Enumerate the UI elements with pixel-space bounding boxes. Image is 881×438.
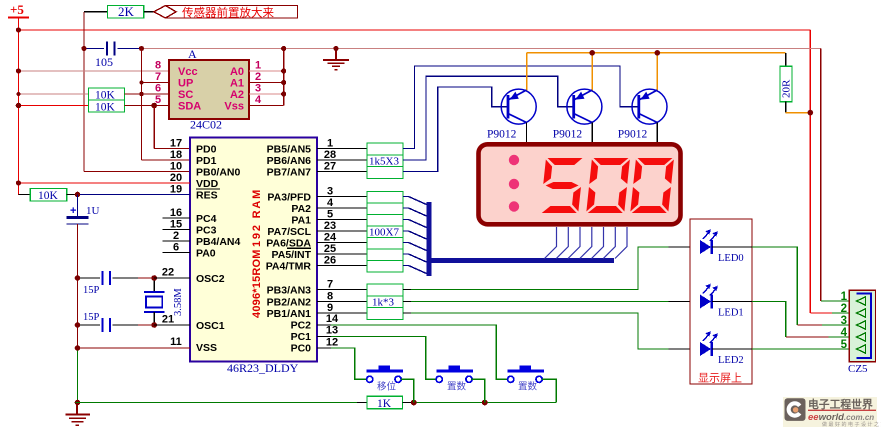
node 15P bottom left <box>75 322 81 328</box>
svg-text:7: 7 <box>327 279 333 291</box>
button S1 移位 <box>367 366 414 403</box>
U1 VDD underline <box>196 188 220 190</box>
svg-text:2K: 2K <box>118 4 135 19</box>
svg-text:显示屏上: 显示屏上 <box>698 372 742 385</box>
wire 24C02 Vcc row <box>19 70 170 72</box>
svg-text:8: 8 <box>327 291 333 303</box>
wire LED0 cathode to CZ5 pin3 <box>752 247 857 325</box>
resistor R 10K (SDA pullup) <box>89 100 125 114</box>
svg-text:4: 4 <box>255 94 262 106</box>
wire +5 rail <box>19 30 811 313</box>
svg-text:23: 23 <box>324 220 336 232</box>
LED2 <box>700 331 752 366</box>
svg-text:PA3/PFD: PA3/PFD <box>267 192 311 204</box>
wire LED1 cathode to CZ5 pin4 <box>752 302 857 338</box>
svg-text:13: 13 <box>326 325 338 337</box>
svg-text:17: 17 <box>170 138 182 150</box>
svg-text:26: 26 <box>324 255 336 267</box>
svg-text:1: 1 <box>255 60 261 72</box>
wire GND rail right drop <box>820 49 822 302</box>
svg-text:3.58M: 3.58M <box>173 288 184 316</box>
svg-text:PD1: PD1 <box>196 155 217 167</box>
LED frame box <box>690 219 752 384</box>
wire PC1 net to button2 <box>317 337 437 380</box>
svg-text:P9012: P9012 <box>487 129 517 141</box>
U1 PA6/SDA underline <box>287 247 311 249</box>
wire 20R bottom to +5 <box>786 102 811 113</box>
svg-text:PB1/AN1: PB1/AN1 <box>267 308 312 320</box>
svg-text:2: 2 <box>173 230 179 242</box>
svg-text:15P: 15P <box>83 285 100 296</box>
resistor R 20R <box>780 66 793 102</box>
svg-text:PC3: PC3 <box>196 225 217 237</box>
svg-text:做最好的电子设计之家: 做最好的电子设计之家 <box>822 421 881 428</box>
wire bus entry c <box>403 220 427 228</box>
wire A1 row <box>249 82 284 84</box>
wire PB1 stub <box>317 312 367 314</box>
transistor Q3 P9012 <box>618 89 667 142</box>
wire bus entry a <box>403 197 427 205</box>
U1 left pin names <box>196 144 241 355</box>
wire PB3 stub <box>317 289 367 291</box>
svg-text:5: 5 <box>155 94 161 106</box>
svg-text:10: 10 <box>170 161 182 173</box>
svg-text:4096*15ROM: 4096*15ROM <box>251 249 263 318</box>
node cap105 left junction <box>81 46 86 51</box>
svg-text:25: 25 <box>324 243 336 255</box>
wire PC2 net to button3 <box>317 325 508 379</box>
power +5 <box>8 2 29 195</box>
U1 left pin numbers <box>162 138 182 349</box>
crystal Y1 3.58M <box>144 278 184 325</box>
wire vertical from 2K down to PB0 <box>84 12 190 172</box>
wire bus entry e <box>403 243 427 251</box>
svg-text:PB7/AN7: PB7/AN7 <box>267 167 312 179</box>
svg-text:Vss: Vss <box>224 101 244 113</box>
svg-text:A2: A2 <box>230 89 244 101</box>
wire base net T1 (inner) <box>403 87 508 172</box>
wire orange drop T3 <box>656 53 658 91</box>
svg-text:PA2: PA2 <box>291 203 311 215</box>
svg-text:VSS: VSS <box>196 342 217 354</box>
wire SDA row left (red) <box>19 105 89 107</box>
wire orange drop T1 <box>526 53 528 91</box>
resistor network RN3 1k*3 <box>367 284 403 320</box>
IC U2 24C02 <box>155 47 262 132</box>
node OSC2 junction <box>151 275 157 281</box>
wire LED2 anode net <box>403 313 700 349</box>
wire OSC1 <box>154 324 190 326</box>
svg-text:46R23_DLDY: 46R23_DLDY <box>227 361 299 375</box>
wire RES row <box>67 194 190 196</box>
node VSS junction <box>75 345 81 351</box>
node ground bottom junction <box>75 400 81 406</box>
svg-text:1k5X3: 1k5X3 <box>369 156 399 168</box>
node tie A2 <box>281 91 286 96</box>
node 20R/+5 junction <box>808 110 814 116</box>
wire PB7 stub <box>317 171 367 173</box>
U1 right pin numbers <box>324 138 339 349</box>
svg-text:15: 15 <box>170 219 182 231</box>
svg-text:A0: A0 <box>230 66 244 78</box>
node SC row left <box>17 92 21 96</box>
svg-text:19: 19 <box>170 184 182 196</box>
wire PA1 stub <box>317 219 367 221</box>
svg-text:PB3/AN3: PB3/AN3 <box>267 285 312 297</box>
wire bus entry b <box>403 208 427 216</box>
wire PA4 stub <box>317 265 367 267</box>
svg-text:5: 5 <box>327 209 333 221</box>
node +5/rail junction <box>16 27 21 32</box>
wire A2 row <box>249 93 284 95</box>
svg-text:1K: 1K <box>377 398 392 410</box>
svg-text:PC1: PC1 <box>291 331 312 343</box>
node 15P top left <box>75 275 81 281</box>
svg-text:18: 18 <box>170 149 182 161</box>
wire 2K left <box>84 11 108 13</box>
svg-text:28: 28 <box>324 149 336 161</box>
svg-text:4: 4 <box>327 197 334 209</box>
ground (bottom left) <box>66 403 91 426</box>
node OSC1 junction <box>151 322 157 328</box>
wire VDD <box>19 182 191 184</box>
bus segment vertical <box>427 202 432 276</box>
svg-text:LED0: LED0 <box>718 253 744 264</box>
LED0 <box>700 229 752 264</box>
wire 20R top <box>785 53 787 66</box>
svg-text:10K: 10K <box>95 102 116 114</box>
svg-text:4: 4 <box>841 327 848 339</box>
svg-text:PA1: PA1 <box>291 215 311 227</box>
wire PA2 stub <box>317 207 367 209</box>
svg-text:105: 105 <box>95 55 113 69</box>
resistor network RN1 1k5X3 <box>367 143 403 179</box>
svg-text:LED2: LED2 <box>718 355 744 366</box>
svg-text:22: 22 <box>162 267 174 279</box>
wire 1K right stub <box>403 402 414 404</box>
node tie A1 <box>281 80 286 85</box>
transistor Q2 P9012 <box>553 89 602 142</box>
resistor R 2K <box>108 4 144 19</box>
svg-text:+5: +5 <box>10 2 24 17</box>
node VDD tee <box>16 180 21 185</box>
svg-text:3: 3 <box>841 315 847 327</box>
wire 1K left stub <box>357 402 367 404</box>
svg-text:OSC1: OSC1 <box>196 320 225 332</box>
wire +5 elbow to 10K RES <box>19 194 31 196</box>
display DS1 body <box>479 144 681 224</box>
resistor network RN2 100X7 <box>367 192 403 273</box>
svg-text:24: 24 <box>324 232 337 244</box>
svg-text:置数: 置数 <box>447 381 467 393</box>
node orange T2 <box>589 50 595 56</box>
svg-text:SDA: SDA <box>178 101 201 113</box>
node cap105 right junction <box>139 46 144 51</box>
node SDA junction to PD0 <box>151 103 157 109</box>
wire PB6 stub <box>317 159 367 161</box>
svg-text:12: 12 <box>326 337 338 349</box>
svg-text:PB0/AN0: PB0/AN0 <box>196 167 241 179</box>
wire base net T2 (middle) <box>403 76 573 160</box>
display colon dot 3 <box>509 201 519 211</box>
svg-text:24C02: 24C02 <box>190 118 222 132</box>
svg-text:传感器前置放大来: 传感器前置放大来 <box>182 6 274 20</box>
wire orange drop T2 <box>591 53 593 91</box>
display digit 0 (right) <box>630 158 674 213</box>
wire orange emitter rail <box>527 52 786 54</box>
node rail junction b1 <box>411 400 417 406</box>
ground (top middle) <box>323 49 349 70</box>
wire base net T3 (outer) <box>403 66 639 149</box>
svg-text:PA4/TMR: PA4/TMR <box>266 261 312 273</box>
svg-text:3: 3 <box>255 83 261 95</box>
svg-text:20R: 20R <box>781 79 793 98</box>
wire LED1 anode net <box>403 301 700 303</box>
svg-text:PB5/AN5: PB5/AN5 <box>267 144 312 156</box>
svg-text:UP: UP <box>178 78 193 90</box>
wire PA5 stub <box>317 253 367 255</box>
watermark eeworld logo <box>783 397 881 428</box>
node UP row pin7 tee <box>140 81 144 85</box>
svg-text:VDD: VDD <box>196 178 219 190</box>
svg-text:100X7: 100X7 <box>369 227 399 239</box>
svg-text:PA0: PA0 <box>196 248 216 260</box>
svg-text:A: A <box>188 47 197 61</box>
svg-text:7: 7 <box>155 71 161 83</box>
wire SDA to PD0 <box>154 106 190 149</box>
wire bus entry f <box>403 254 427 262</box>
wire PB5 stub <box>317 148 367 150</box>
capacitor C 1U electrolytic <box>67 195 100 225</box>
wire bus entry g <box>403 266 427 274</box>
button S2 置数 <box>436 366 485 403</box>
svg-text:CZ5: CZ5 <box>848 363 868 375</box>
wire SC row right <box>125 93 170 95</box>
wire 24C02 right tie vertical <box>283 49 285 106</box>
svg-text:Vcc: Vcc <box>178 66 198 78</box>
svg-text:PC0: PC0 <box>291 343 312 355</box>
node tie top <box>281 46 286 51</box>
capacitor C 15P (top) <box>78 271 155 296</box>
svg-text:SC: SC <box>178 89 193 101</box>
wire VSS <box>78 347 191 349</box>
wire LED2 cathode to CZ5 pin5 <box>752 348 857 350</box>
U1 unconnected left stubs <box>163 218 191 253</box>
svg-text:1: 1 <box>841 291 848 303</box>
svg-text:6: 6 <box>173 242 179 254</box>
wire PB2 stub <box>317 301 367 303</box>
svg-text:P9012: P9012 <box>618 129 648 141</box>
display colon dot 1 <box>509 155 519 165</box>
wire +5 to CZ5 pin2 <box>810 312 856 314</box>
port 传感器前置放大来 <box>154 6 298 20</box>
svg-text:P9012: P9012 <box>553 129 583 141</box>
wire SDA row right <box>125 105 170 107</box>
svg-text:PD0: PD0 <box>196 144 217 156</box>
wire PA7 stub <box>317 230 367 232</box>
resistor R 1K <box>367 396 403 410</box>
wire GND to CZ5 pin1 <box>821 300 857 302</box>
display segment column wires <box>545 227 628 259</box>
connector CZ5 <box>841 290 876 375</box>
svg-text:LED1: LED1 <box>718 308 744 319</box>
node Vcc row left <box>16 68 21 73</box>
svg-text:6: 6 <box>155 83 161 95</box>
U1 right pin names <box>266 144 312 355</box>
display digit 5 <box>540 158 584 213</box>
wire Vss row <box>249 105 284 107</box>
node ground rail junction <box>333 46 338 51</box>
svg-text:2: 2 <box>841 303 847 315</box>
svg-text:14: 14 <box>326 313 339 325</box>
svg-text:5: 5 <box>841 339 848 351</box>
wire OSC2 <box>154 277 190 279</box>
node SDA row left <box>16 103 22 109</box>
wire bus entry d <box>403 231 427 239</box>
svg-text:1U: 1U <box>86 205 100 217</box>
svg-text:1: 1 <box>327 138 333 150</box>
capacitor C 105 <box>84 42 142 70</box>
svg-text:电子工程世界: 电子工程世界 <box>808 397 873 411</box>
svg-text:10K: 10K <box>38 190 59 202</box>
wire A0 row <box>249 70 284 72</box>
wire 2K right <box>144 11 154 13</box>
wire bottom green rail right <box>414 402 557 404</box>
svg-text:PA5/INT: PA5/INT <box>272 249 312 261</box>
svg-text:OSC2: OSC2 <box>196 273 225 285</box>
svg-text:移位: 移位 <box>377 381 397 393</box>
LED1 <box>700 284 752 319</box>
svg-text:置数: 置数 <box>518 381 538 393</box>
node RES junction <box>75 192 81 198</box>
svg-text:3: 3 <box>327 186 333 198</box>
capacitor C 15P (bottom) <box>78 312 155 332</box>
wire PC0 net to button1 <box>317 348 367 379</box>
transistor Q1 P9012 <box>487 89 536 142</box>
node SC/UP crossing dot <box>139 92 143 96</box>
wire GND rail (salmon) <box>142 48 821 50</box>
wire PA6 stub <box>317 242 367 244</box>
wire 24C02 UP row vertical <box>142 49 191 161</box>
svg-text:PB6/AN6: PB6/AN6 <box>267 155 312 167</box>
svg-text:A1: A1 <box>230 78 244 90</box>
node tie A0 <box>281 68 286 73</box>
svg-text:16: 16 <box>170 207 182 219</box>
button S3 置数 <box>508 366 557 403</box>
svg-text:11: 11 <box>170 336 182 348</box>
wire left vertical to ground <box>77 224 79 348</box>
svg-text:192 RAM: 192 RAM <box>251 188 263 247</box>
svg-text:PB2/AN2: PB2/AN2 <box>267 297 312 309</box>
IC U1 46R23_DLDY body <box>190 138 317 376</box>
svg-text:PA7/SCL: PA7/SCL <box>267 226 311 238</box>
bus segment horizontal <box>427 258 614 263</box>
svg-text:PB4/AN4: PB4/AN4 <box>196 236 241 248</box>
wire LED0 anode net <box>403 247 700 290</box>
svg-text:+: + <box>70 205 76 217</box>
wire SC row left (salmon) <box>19 93 89 95</box>
display colon dot 2 <box>509 179 519 189</box>
display digit 0 (middle) <box>586 158 630 213</box>
wire bottom green rail left <box>76 402 357 404</box>
svg-text:PC2: PC2 <box>291 320 312 332</box>
wire PA3 stub <box>317 196 367 198</box>
svg-text:15P: 15P <box>83 312 100 323</box>
svg-text:RES: RES <box>196 190 218 202</box>
svg-text:PC4: PC4 <box>196 213 217 225</box>
svg-text:27: 27 <box>324 161 336 173</box>
node rail junction b2 <box>482 400 488 406</box>
svg-text:20: 20 <box>170 172 182 184</box>
svg-text:8: 8 <box>155 60 161 72</box>
resistor R 10K (RES) <box>30 189 66 203</box>
node orange T3 <box>655 50 661 56</box>
resistor R 10K (SC pullup) <box>89 88 125 102</box>
svg-text:2: 2 <box>255 71 261 83</box>
svg-text:1k*3: 1k*3 <box>372 297 395 309</box>
